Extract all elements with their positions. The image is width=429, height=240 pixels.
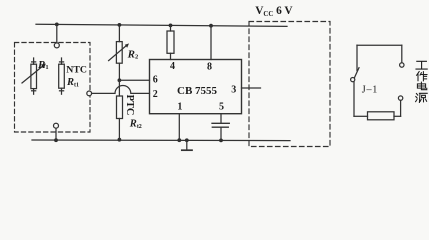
node bottom rail pin 1 — [177, 138, 181, 142]
svg-text:5: 5 — [219, 101, 224, 112]
svg-text:CB 7555: CB 7555 — [177, 85, 218, 97]
thermistor Rt2 (PTC) — [117, 96, 123, 119]
thermistor Rt1 (NTC) — [61, 58, 63, 64]
sensor probe dashed box — [15, 43, 91, 133]
wire bottom ground rail — [32, 139, 290, 142]
label 源 (yuan) — [416, 93, 428, 102]
op-amp/timer IC U1 CB7555 — [150, 60, 242, 114]
svg-text:4: 4 — [170, 61, 175, 72]
wire junction down to PTC — [118, 80, 120, 96]
terminal upper supply — [400, 63, 404, 67]
node top rail to sensor box — [55, 23, 59, 27]
node R2 / Rt2 / pin6 — [118, 78, 122, 82]
svg-text:6: 6 — [153, 74, 158, 85]
relay dashed box — [249, 22, 330, 147]
svg-text:Rt2: Rt2 — [129, 119, 142, 130]
svg-text:R2: R2 — [127, 48, 139, 60]
terminal right of sensor box — [87, 91, 92, 96]
switch J-1 blade — [354, 68, 359, 78]
arrow of rheostat R1 — [22, 65, 44, 83]
wire pin 3 output — [242, 87, 261, 89]
arrow of R2 — [109, 45, 128, 61]
label 工 (gong) — [416, 61, 427, 69]
svg-text:8: 8 — [207, 61, 212, 72]
potentiometer R2 — [116, 42, 122, 64]
svg-text:PTC: PTC — [124, 95, 135, 116]
node top rail to pin 8 — [209, 24, 213, 28]
node bottom rail PTC — [118, 138, 122, 142]
label 电 (dian) — [417, 82, 426, 90]
node bottom rail ground stub — [185, 138, 189, 142]
wire pin 8 to top rail — [210, 26, 212, 60]
terminal top of sensor box — [54, 43, 59, 48]
terminal lower supply — [398, 96, 402, 100]
svg-text:R1: R1 — [37, 59, 49, 71]
node top rail to pin-4 resistor — [169, 24, 173, 28]
capacitor C — [212, 122, 229, 124]
svg-text:NTC: NTC — [66, 64, 87, 75]
wire sensor box bottom terminal to rail — [55, 128, 57, 140]
CJK labels shift — [416, 61, 428, 102]
wire switch lower lead — [353, 82, 355, 117]
node bottom rail capacitor — [219, 139, 223, 143]
svg-text:VCC 6 V: VCC 6 V — [255, 5, 293, 18]
wire upper supply terminal — [401, 45, 403, 63]
wire top rail to sensor box terminal — [56, 24, 58, 42]
resistor R1 — [33, 58, 35, 64]
node bottom rail sensor box — [54, 138, 58, 142]
wire up to lower supply terminal — [400, 100, 402, 116]
svg-text:Rt1: Rt1 — [66, 77, 79, 88]
svg-text:J–1: J–1 — [362, 84, 378, 95]
wire terminal to pin 2 with hop — [92, 86, 150, 94]
svg-text:3: 3 — [231, 84, 236, 95]
wire bottom left — [354, 115, 368, 117]
resistor above pin 4 — [170, 25, 172, 31]
terminal bottom of sensor box — [54, 123, 59, 128]
wire switch upper lead — [356, 45, 358, 70]
wire top supply rail — [36, 24, 287, 26]
svg-text:2: 2 — [153, 89, 158, 100]
wire PTC to bottom rail — [118, 119, 120, 140]
wire pin 5 to capacitor — [220, 114, 222, 123]
contact circuit: top wire — [357, 44, 402, 46]
wire bottom right — [394, 115, 401, 117]
ground — [186, 140, 188, 149]
wire pin 1 to bottom rail — [178, 114, 180, 141]
svg-text:1: 1 — [177, 101, 182, 112]
wire top rail to R2 — [118, 25, 120, 42]
wire junction to pin 6 — [119, 79, 149, 81]
switch J-1 pivot — [351, 78, 355, 82]
resistor load — [368, 112, 395, 120]
label 作 (zuo) — [417, 72, 427, 81]
node top rail to R2 — [118, 23, 122, 27]
wire R2 to junction — [118, 63, 120, 80]
